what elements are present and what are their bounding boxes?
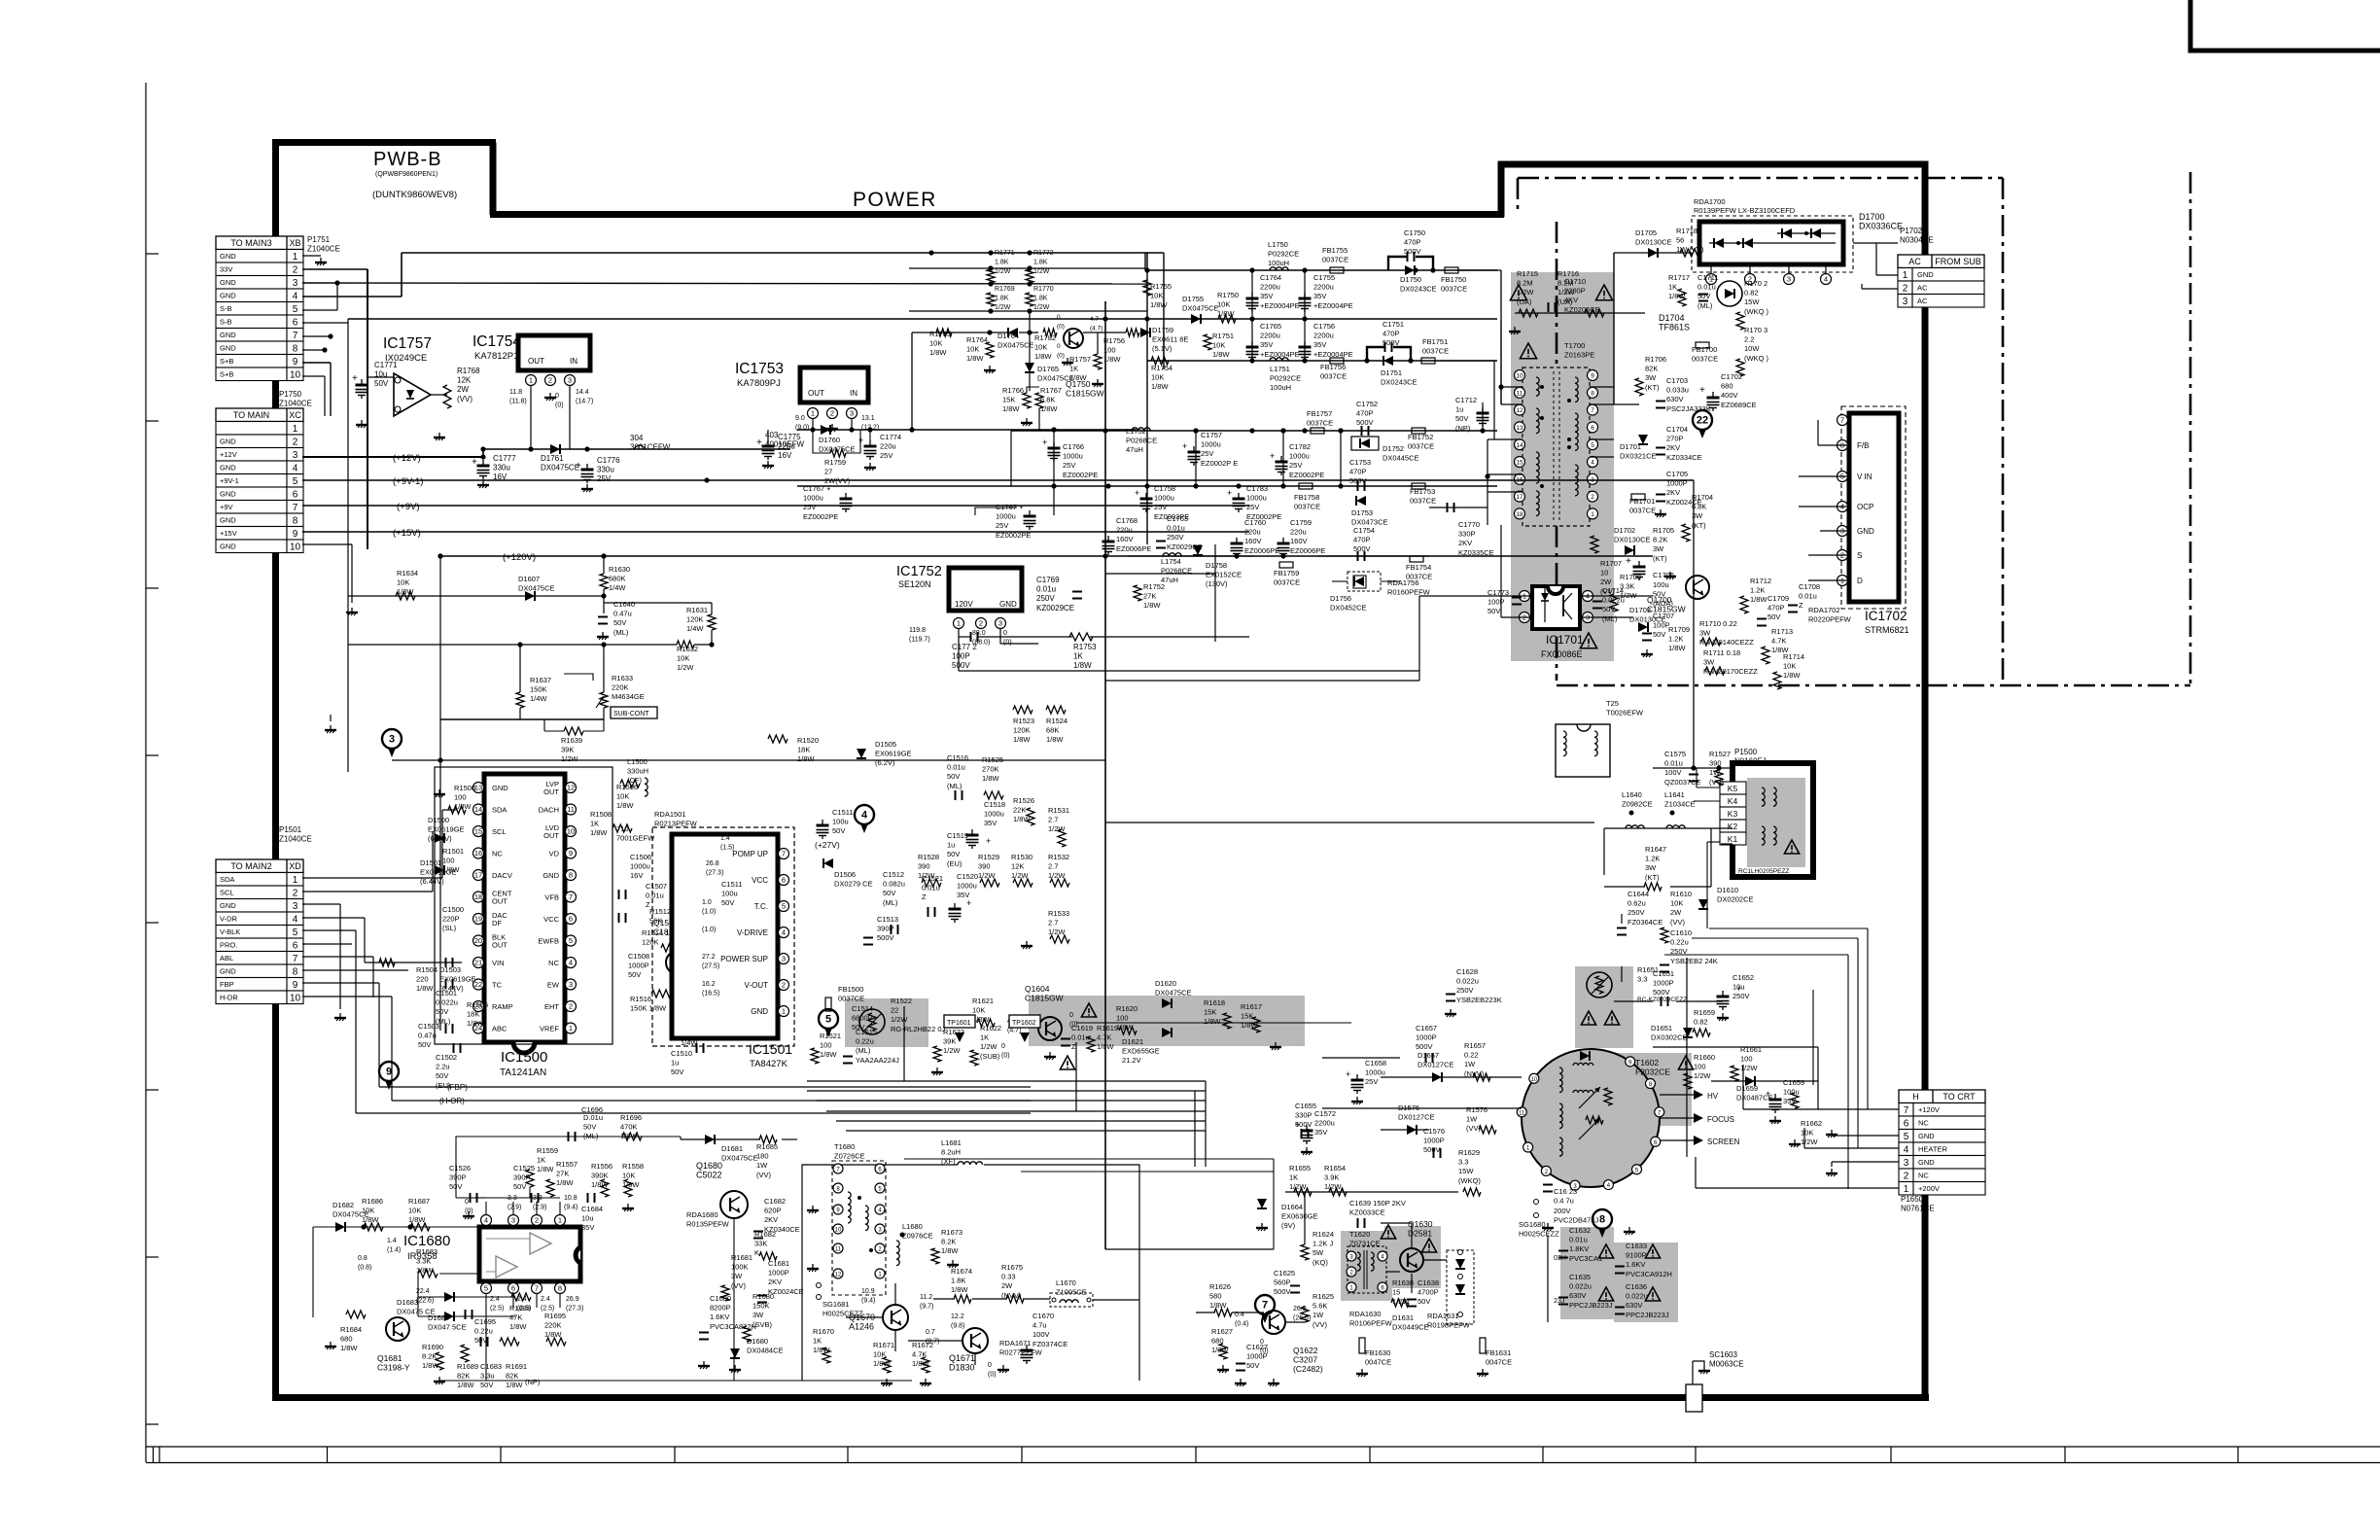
wire pin7 drop bbox=[536, 1294, 538, 1308]
resistor R1782sym bbox=[1043, 329, 1057, 336]
svg-text:1K: 1K bbox=[1069, 365, 1078, 373]
label C1704 bbox=[1666, 425, 1702, 462]
svg-text:1000u: 1000u bbox=[1365, 1068, 1385, 1077]
wire bbox=[603, 708, 605, 719]
wire XB pin9 S+B bbox=[302, 362, 331, 364]
label val IC1754a bbox=[509, 389, 527, 405]
svg-text:0.01u: 0.01u bbox=[1036, 585, 1056, 594]
capacitor C1776 bbox=[581, 469, 594, 472]
svg-text:1000u: 1000u bbox=[996, 512, 1016, 521]
svg-text:K4: K4 bbox=[1728, 796, 1738, 806]
svg-text:Z1005CE: Z1005CE bbox=[1056, 1288, 1087, 1297]
svg-text:(4.7): (4.7) bbox=[1090, 326, 1102, 332]
capacitor C1782sym bbox=[1276, 461, 1288, 464]
svg-text:R1759: R1759 bbox=[824, 458, 846, 467]
junction bbox=[1302, 267, 1307, 272]
svg-text:2.2: 2.2 bbox=[1744, 335, 1754, 344]
resistor R1532sym bbox=[1050, 879, 1069, 887]
arrow FOCUS bbox=[1694, 1113, 1703, 1123]
label R1530 bbox=[1011, 853, 1032, 880]
wire bbox=[1029, 373, 1031, 391]
label R1531 bbox=[1048, 806, 1069, 833]
label C1706 bbox=[1653, 571, 1674, 579]
diode D1610sym bbox=[1698, 899, 1708, 909]
label R1683 bbox=[416, 1247, 437, 1275]
svg-text:1/8W: 1/8W bbox=[616, 801, 634, 810]
wire bbox=[1205, 1081, 1207, 1167]
svg-text:P1702: P1702 bbox=[1900, 227, 1923, 235]
svg-text:1: 1 bbox=[1591, 511, 1594, 518]
label Q1671 bbox=[949, 1353, 975, 1373]
svg-text:+EZ0004PE: +EZ0004PE bbox=[1260, 301, 1300, 310]
label D1684 bbox=[428, 1313, 467, 1332]
label R1755 bbox=[1150, 282, 1172, 309]
svg-text:1.6KV: 1.6KV bbox=[1626, 1260, 1645, 1269]
diode D1500 bbox=[435, 833, 444, 843]
capacitor C1511sym bbox=[817, 824, 829, 827]
label C1774 bbox=[880, 433, 901, 460]
IC U IC1501 TA8427K bbox=[672, 834, 778, 1038]
wire k1 drop bbox=[1721, 843, 1732, 845]
svg-text:C1659: C1659 bbox=[1783, 1078, 1804, 1087]
wire flag3 stub bbox=[391, 752, 393, 753]
none bbox=[1483, 430, 1497, 432]
label R1708 bbox=[1620, 573, 1641, 600]
resistor R1622sym bbox=[970, 1050, 978, 1066]
resistor R1685sym bbox=[759, 1136, 777, 1143]
diode D1681sym bbox=[705, 1135, 715, 1144]
svg-text:25V: 25V bbox=[1365, 1077, 1378, 1086]
label R1634 bbox=[397, 569, 418, 596]
none bbox=[680, 1359, 682, 1371]
label R1662 bbox=[1801, 1119, 1822, 1146]
wire y1285 bbox=[1105, 1248, 1274, 1250]
label C1638b bbox=[1417, 1278, 1439, 1306]
junction bbox=[1338, 483, 1343, 488]
svg-text:1/2W: 1/2W bbox=[1801, 1137, 1818, 1146]
svg-text:Z1040CE: Z1040CE bbox=[279, 835, 312, 844]
capacitor C1636sym bbox=[1615, 1307, 1625, 1309]
svg-text:1000P: 1000P bbox=[1423, 1137, 1445, 1145]
val ic1680 p6 bbox=[517, 1296, 531, 1312]
svg-text:(22.6): (22.6) bbox=[416, 1298, 434, 1305]
capacitor C1640sym bbox=[598, 616, 608, 618]
svg-text:+: + bbox=[1699, 385, 1705, 396]
svg-text:(0.8): (0.8) bbox=[358, 1265, 371, 1272]
junction bbox=[601, 593, 606, 598]
label val IC1753a bbox=[795, 415, 809, 432]
label C1764 bbox=[1260, 273, 1300, 310]
svg-text:R1705: R1705 bbox=[1653, 526, 1674, 535]
isolation barrier vertical at transformer bbox=[1556, 222, 1558, 367]
junction bbox=[1280, 483, 1285, 488]
label R1661 bbox=[1740, 1045, 1762, 1072]
fuse FB1756sym bbox=[1330, 358, 1344, 364]
svg-text:0.22u: 0.22u bbox=[474, 1327, 493, 1336]
ground C1707 bbox=[1646, 649, 1648, 654]
svg-text:C1658: C1658 bbox=[1365, 1059, 1386, 1067]
label FB1500 bbox=[838, 985, 864, 1003]
capacitor C1768sym bbox=[1102, 541, 1115, 543]
diac D1704 bbox=[1717, 281, 1742, 306]
svg-text:1000P: 1000P bbox=[768, 1269, 789, 1277]
label D1505 bbox=[875, 740, 912, 767]
svg-text:+15V: +15V bbox=[220, 529, 237, 538]
junction bbox=[528, 446, 533, 451]
svg-text:1/8W: 1/8W bbox=[1668, 644, 1686, 652]
label C1702 bbox=[1721, 372, 1757, 409]
wire +9V bbox=[302, 505, 1249, 507]
svg-text:EHT: EHT bbox=[544, 1002, 559, 1011]
capacitor C1513sym bbox=[863, 937, 873, 939]
svg-text:1/8W: 1/8W bbox=[1073, 661, 1092, 670]
svg-text:50V: 50V bbox=[628, 970, 641, 979]
junction bbox=[988, 281, 993, 286]
svg-text:2: 2 bbox=[1903, 284, 1908, 295]
label C1655 bbox=[1295, 1102, 1316, 1129]
diode D1764 bbox=[1008, 328, 1018, 337]
svg-text:C1682: C1682 bbox=[764, 1197, 786, 1206]
svg-text:22: 22 bbox=[891, 1006, 898, 1015]
svg-text:100: 100 bbox=[1740, 1055, 1753, 1064]
svg-text:2: 2 bbox=[569, 1002, 573, 1011]
none bbox=[512, 1308, 514, 1342]
svg-text:OUT: OUT bbox=[808, 389, 824, 398]
label C1769 bbox=[1036, 576, 1074, 612]
svg-text:47K: 47K bbox=[509, 1313, 522, 1322]
svg-text:10: 10 bbox=[1600, 569, 1608, 577]
svg-text:D1680: D1680 bbox=[747, 1337, 768, 1346]
svg-text:T.C.: T.C. bbox=[754, 902, 768, 911]
label L1680 bbox=[902, 1222, 933, 1241]
svg-text:(+12V): (+12V) bbox=[393, 453, 421, 464]
svg-text:1/2W: 1/2W bbox=[980, 1042, 997, 1051]
label FB1752 bbox=[1408, 433, 1434, 451]
wire hot riser bbox=[1613, 253, 1615, 404]
svg-text:12: 12 bbox=[835, 1273, 842, 1278]
label RDA1671 bbox=[999, 1339, 1043, 1357]
label R1627 bbox=[1211, 1327, 1233, 1354]
svg-text:C1636: C1636 bbox=[1626, 1282, 1647, 1291]
wire K4 bbox=[1694, 800, 1720, 802]
junction bbox=[1234, 553, 1239, 558]
svg-text:1/4W: 1/4W bbox=[609, 583, 626, 592]
wire bbox=[442, 809, 457, 811]
wire x1742 drop bbox=[1693, 480, 1695, 768]
resistor R1684sym bbox=[346, 1311, 366, 1318]
svg-text:(0): (0) bbox=[988, 1372, 997, 1379]
svg-text:R1757: R1757 bbox=[1069, 355, 1091, 364]
svg-text:1000P: 1000P bbox=[1653, 979, 1674, 988]
svg-text:FB1755: FB1755 bbox=[1322, 246, 1347, 255]
val q1604b bbox=[1069, 1012, 1078, 1029]
svg-text:DX0127CE: DX0127CE bbox=[1398, 1113, 1435, 1122]
capacitor C1503a bbox=[445, 958, 447, 967]
ground C1640 bbox=[602, 632, 604, 637]
sheet frame tick bbox=[146, 922, 158, 924]
fuse FB1701 bbox=[1631, 494, 1645, 500]
svg-text:C1680: C1680 bbox=[710, 1294, 731, 1303]
ground R1533 bbox=[1026, 941, 1028, 946]
svg-text:KA7812P1: KA7812P1 bbox=[474, 351, 518, 362]
junction bbox=[988, 250, 993, 255]
svg-text:220K: 220K bbox=[544, 1321, 562, 1330]
svg-text:2: 2 bbox=[1904, 1172, 1909, 1182]
svg-text:+: + bbox=[1295, 1120, 1300, 1130]
capacitor C1755sym bbox=[1299, 297, 1312, 300]
svg-text:1/8W: 1/8W bbox=[622, 1180, 640, 1189]
label C1682 bbox=[764, 1197, 800, 1234]
wire y852 bbox=[1604, 827, 1732, 829]
capacitor C1751sym bbox=[1367, 347, 1384, 361]
label D1765 bbox=[1037, 365, 1074, 383]
label R1508 bbox=[590, 810, 612, 837]
svg-text:C1628: C1628 bbox=[1456, 967, 1478, 976]
resistor R1624sym bbox=[1301, 1244, 1309, 1260]
inductor L1754sym bbox=[1163, 553, 1169, 556]
wire bbox=[324, 376, 326, 416]
svg-text:4.7K: 4.7K bbox=[1097, 1033, 1111, 1042]
svg-text:1/8W: 1/8W bbox=[362, 1215, 379, 1224]
svg-text:1/8W: 1/8W bbox=[982, 774, 999, 783]
label C1644 bbox=[1627, 890, 1662, 927]
isolation barrier vertical far right bbox=[2189, 172, 2192, 685]
svg-text:(130V): (130V) bbox=[1206, 579, 1228, 588]
label SCREEN bbox=[1707, 1137, 1740, 1146]
label RDA1630 bbox=[1349, 1310, 1393, 1328]
none bbox=[1146, 268, 1148, 308]
ground R1766 bbox=[1026, 418, 1028, 423]
junction bbox=[1691, 765, 1696, 770]
val ic1680 p5 bbox=[490, 1296, 504, 1312]
svg-text:R1558: R1558 bbox=[622, 1162, 644, 1171]
svg-text:C1757: C1757 bbox=[1201, 431, 1222, 439]
val q1622a bbox=[1235, 1312, 1248, 1328]
wire SCL bbox=[302, 891, 433, 892]
svg-text:L1751: L1751 bbox=[1270, 365, 1290, 373]
junction bbox=[361, 1224, 366, 1229]
svg-text:8: 8 bbox=[293, 344, 298, 355]
svg-text:(0): (0) bbox=[1003, 640, 1012, 647]
svg-text:1K: 1K bbox=[1289, 1173, 1298, 1182]
label C1683 bbox=[480, 1362, 502, 1389]
wire x1921 +120V riser bbox=[1867, 928, 1869, 1109]
wire t1620 q1630 bbox=[1386, 1271, 1400, 1273]
regulator IC1752 box bbox=[949, 568, 1022, 611]
label 304 3001CEFW bbox=[630, 434, 671, 452]
svg-text:R1505: R1505 bbox=[467, 1000, 488, 1009]
resistor R1639sym bbox=[564, 727, 583, 735]
label C1623 bbox=[1554, 1187, 1577, 1206]
svg-text:1/8W: 1/8W bbox=[1034, 352, 1052, 361]
label val q1681b bbox=[358, 1255, 371, 1272]
junction bbox=[1716, 765, 1721, 770]
svg-text:35V: 35V bbox=[1314, 1128, 1327, 1137]
svg-text:C1751: C1751 bbox=[1382, 320, 1404, 329]
wire XB pin7 bbox=[302, 335, 331, 337]
svg-text:27K: 27K bbox=[1143, 592, 1156, 601]
svg-text:C1519: C1519 bbox=[947, 831, 968, 840]
junction bbox=[1144, 316, 1149, 321]
flag 3 bbox=[382, 729, 402, 749]
wire C1774 stub bbox=[869, 430, 871, 440]
svg-text:PVC3CA912H: PVC3CA912H bbox=[1626, 1270, 1672, 1278]
svg-text:2200u: 2200u bbox=[1260, 332, 1280, 340]
svg-text:500V: 500V bbox=[877, 933, 894, 942]
svg-text:TA8427K: TA8427K bbox=[750, 1059, 788, 1069]
svg-text:C1683: C1683 bbox=[480, 1362, 502, 1371]
svg-text:RDA1702: RDA1702 bbox=[1808, 606, 1840, 614]
svg-text:50V: 50V bbox=[1455, 414, 1468, 423]
wire bbox=[767, 430, 769, 442]
wire +200V bbox=[1696, 1187, 1899, 1189]
svg-text:C1619: C1619 bbox=[1071, 1024, 1093, 1032]
svg-text:+: + bbox=[1626, 556, 1631, 567]
label RDA1700 bbox=[1694, 197, 1726, 206]
svg-text:D1620: D1620 bbox=[1155, 979, 1176, 988]
svg-text:35V: 35V bbox=[1260, 292, 1273, 300]
junction bbox=[1302, 358, 1307, 363]
label L1752 bbox=[1126, 427, 1157, 454]
label C1759 bbox=[1290, 518, 1325, 555]
resistor R1672sym bbox=[922, 1357, 929, 1373]
svg-text:1000u: 1000u bbox=[1246, 494, 1267, 503]
svg-text:4.7K: 4.7K bbox=[1771, 637, 1786, 646]
svg-text:DX0452CE: DX0452CE bbox=[1330, 604, 1367, 612]
svg-text:4: 4 bbox=[782, 928, 786, 937]
svg-text:R1764: R1764 bbox=[966, 335, 988, 344]
label C1710 bbox=[1564, 277, 1600, 314]
ground R1627 bbox=[1222, 1365, 1224, 1370]
label C1775 bbox=[778, 433, 801, 460]
label C1767b bbox=[996, 503, 1031, 540]
none bbox=[1251, 270, 1253, 361]
label D1576 bbox=[1398, 1103, 1435, 1122]
svg-text:TO MAIN2: TO MAIN2 bbox=[230, 861, 271, 871]
svg-text:GND: GND bbox=[220, 516, 236, 525]
svg-text:D1755: D1755 bbox=[1182, 295, 1204, 303]
svg-text:(VV): (VV) bbox=[756, 1171, 772, 1179]
svg-text:R1610: R1610 bbox=[1670, 890, 1692, 898]
label R1707 bbox=[1600, 559, 1622, 596]
svg-text:(+120V): (+120V) bbox=[503, 552, 536, 563]
wire bbox=[336, 283, 338, 310]
svg-text:R1771: R1771 bbox=[995, 250, 1015, 257]
svg-text:+: + bbox=[1042, 437, 1047, 447]
wire H-OR run bbox=[392, 1100, 1031, 1102]
wire ABL drop bbox=[372, 957, 374, 997]
resistor R1716sym bbox=[1585, 309, 1604, 317]
svg-text:18: 18 bbox=[474, 892, 482, 901]
svg-text:C1815GW: C1815GW bbox=[1066, 389, 1104, 399]
none bbox=[391, 757, 393, 768]
svg-text:+120V: +120V bbox=[1918, 1105, 1940, 1114]
svg-text:4: 4 bbox=[569, 959, 573, 967]
svg-text:IC1752: IC1752 bbox=[896, 564, 942, 579]
ground IC1500 gnd bbox=[438, 789, 440, 794]
fuse FB1630sym bbox=[1359, 1338, 1365, 1353]
label D1759 bbox=[1152, 326, 1188, 353]
label P1750 bbox=[279, 390, 312, 408]
svg-text:R1629: R1629 bbox=[1458, 1148, 1480, 1157]
svg-text:R1655: R1655 bbox=[1289, 1164, 1311, 1172]
capacitor C1507sym bbox=[618, 890, 620, 899]
svg-text:DX0445CE: DX0445CE bbox=[1382, 454, 1419, 463]
svg-text:C1575: C1575 bbox=[1664, 750, 1686, 758]
svg-text:SE120N: SE120N bbox=[898, 579, 931, 589]
svg-text:L1680: L1680 bbox=[902, 1222, 923, 1231]
svg-text:250V: 250V bbox=[1036, 594, 1055, 603]
svg-text:1/8W: 1/8W bbox=[1783, 671, 1801, 680]
flyback transformer T1602 bbox=[1522, 1049, 1660, 1187]
svg-text:POWER: POWER bbox=[853, 189, 937, 211]
fuse FB1500 bbox=[825, 997, 831, 1011]
svg-text:120V: 120V bbox=[955, 600, 973, 609]
label Q1750 bbox=[1066, 379, 1104, 399]
label R1702 bbox=[1744, 279, 1768, 316]
label P1650 bbox=[1901, 1195, 1935, 1213]
svg-text:R1660: R1660 bbox=[1694, 1053, 1715, 1062]
wire bbox=[1710, 828, 1712, 887]
resistor R1660sym bbox=[1684, 1073, 1692, 1089]
svg-text:R1706: R1706 bbox=[1645, 355, 1666, 364]
svg-text:+: + bbox=[1135, 488, 1139, 498]
wire XC gnd drop bbox=[351, 544, 353, 603]
svg-text:(+15V): (+15V) bbox=[393, 528, 421, 539]
svg-text:500V: 500V bbox=[1416, 1042, 1433, 1051]
ground Q1622 bbox=[1273, 1379, 1275, 1383]
label R1556 bbox=[591, 1162, 612, 1189]
none bbox=[366, 1314, 386, 1329]
svg-text:0.01u: 0.01u bbox=[1569, 1236, 1588, 1244]
label R1516 bbox=[630, 995, 667, 1013]
val q1622c bbox=[1260, 1339, 1269, 1355]
wire rail y278 bbox=[1145, 269, 1497, 271]
svg-text:S-B: S-B bbox=[220, 304, 232, 313]
ground IC1680 pin4 bbox=[468, 1211, 470, 1216]
capacitor C1712sym bbox=[1477, 412, 1489, 415]
regulator IC1754 box bbox=[518, 335, 590, 370]
none bbox=[603, 1127, 807, 1129]
capacitor C1525sym bbox=[531, 1193, 533, 1203]
capacitor C1515sym bbox=[843, 1056, 853, 1058]
svg-text:+: + bbox=[986, 836, 991, 846]
svg-text:L1641: L1641 bbox=[1664, 790, 1685, 799]
svg-text:50V: 50V bbox=[613, 618, 626, 627]
svg-text:D1752: D1752 bbox=[1382, 444, 1404, 453]
capacitor C1711sym bbox=[1698, 294, 1708, 296]
svg-text:2200u: 2200u bbox=[1314, 1119, 1335, 1128]
label C1696 bbox=[581, 1105, 603, 1114]
svg-text:DACV: DACV bbox=[492, 871, 512, 880]
flyback label shaded patch bbox=[1604, 1053, 1692, 1126]
none bbox=[1663, 982, 1665, 988]
label R1629 bbox=[1458, 1148, 1481, 1185]
adjacent sheet corner box bbox=[2190, 0, 2380, 51]
svg-text:50V: 50V bbox=[671, 1067, 683, 1076]
wire bbox=[1411, 1274, 1413, 1293]
label C1506 bbox=[630, 853, 651, 880]
svg-text:560P: 560P bbox=[1274, 1278, 1291, 1287]
capacitor C1714sym bbox=[1592, 601, 1602, 603]
wire +120V bbox=[440, 555, 1653, 557]
resistor R1626sym bbox=[1214, 1309, 1232, 1316]
svg-text:56: 56 bbox=[1676, 236, 1684, 245]
svg-text:C1511: C1511 bbox=[721, 880, 743, 889]
svg-text:Z0982CE: Z0982CE bbox=[1622, 800, 1653, 809]
svg-text:1/2W: 1/2W bbox=[943, 1046, 961, 1055]
diode D1760 bbox=[821, 425, 830, 435]
